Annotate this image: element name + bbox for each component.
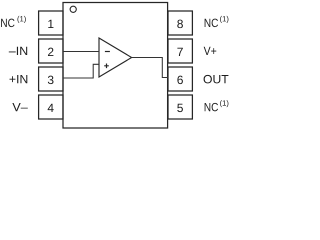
pin number 1 (48, 20, 53, 28)
wire pin3 to non-inverting input (jog) (63, 64, 99, 78)
pin number 7 (177, 48, 182, 56)
pin number 2 (48, 48, 53, 56)
label sup (1) pin 8 (220, 16, 228, 23)
label NC pin 1 (1, 19, 14, 28)
pin number 8 (177, 20, 183, 29)
wire op-amp output to pin6 (jog) (132, 58, 168, 78)
op-amp A1 (99, 38, 132, 77)
pin 1 box (39, 11, 63, 35)
label -IN pin 2 (9, 47, 27, 55)
label sup (1) pin 1 (17, 16, 25, 23)
pin 6 box (168, 67, 192, 91)
pin 8 box (168, 11, 192, 35)
label sup (1) pin 5 (220, 100, 228, 107)
pin 4 box (39, 95, 63, 119)
wire pin2 to inverting input (63, 51, 99, 53)
pin 5 box (168, 95, 192, 119)
pin 7 box (168, 39, 192, 63)
label +IN pin 3 (10, 75, 28, 83)
pin number 5 (177, 104, 183, 112)
pin-1 indicator dot (70, 6, 76, 12)
pin 2 box (39, 39, 63, 63)
pin number 3 (48, 76, 54, 85)
op-amp non-inverting input plus sign (104, 64, 109, 69)
label NC pin 5 (205, 103, 218, 112)
pin number 4 (48, 104, 54, 112)
pin 3 box (39, 67, 63, 91)
label V- pin 4 (12, 103, 27, 111)
IC body U1 (63, 3, 168, 129)
pin number 6 (177, 76, 183, 85)
label NC pin 8 (205, 19, 218, 28)
op-amp inverting input minus sign (105, 51, 110, 53)
label V+ pin 7 (204, 47, 217, 55)
label OUT pin 6 (204, 75, 229, 84)
